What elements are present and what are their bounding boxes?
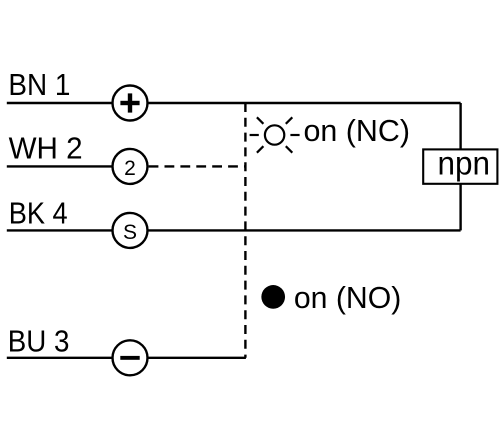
npn output box [423,144,497,183]
LED indicator dot (NO) [261,285,285,309]
wire BK 4 (pin 4 line) [7,229,461,231]
wire: vertical dashed bus [244,103,246,358]
wire BN 1 (pin 1 line) [7,102,461,104]
svg-text:S: S [123,221,137,244]
svg-text:on (NC): on (NC) [304,115,411,148]
svg-text:BN 1: BN 1 [8,69,70,102]
terminal 2 circle [113,149,148,184]
svg-text:npn: npn [438,144,491,181]
svg-text:on (NO): on (NO) [294,282,401,315]
terminal S circle [113,213,148,248]
wire BU 3 (pin 3 line) [7,357,246,359]
terminal - (minus supply) circle [113,340,148,375]
wire: right vertical, BN to npn box top [459,103,461,149]
LED indicator (NC) symbol [250,117,300,152]
svg-text:BK 4: BK 4 [9,197,68,230]
svg-text:BU 3: BU 3 [8,326,70,359]
wire WH 2 solid segment [7,165,130,167]
terminal + (plus supply) circle [113,86,148,121]
svg-text:WH 2: WH 2 [9,133,83,166]
wire WH 2 dashed segment [149,165,246,167]
wire: npn box bottom to BK [459,184,461,231]
svg-text:2: 2 [124,157,136,180]
